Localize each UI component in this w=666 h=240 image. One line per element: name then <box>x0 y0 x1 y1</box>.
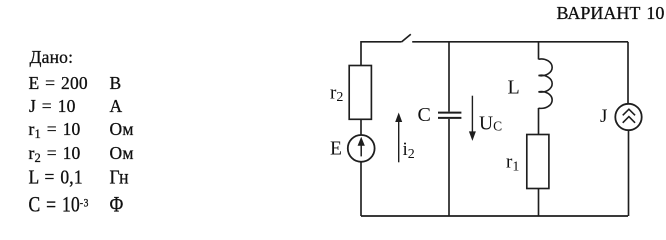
title VARIANT 10 <box>557 4 665 22</box>
bottom rail wire <box>361 215 628 217</box>
svg-text:C: C <box>418 104 431 126</box>
current source J <box>615 104 641 130</box>
arrow voltage Uc <box>470 96 475 139</box>
svg-text:r1: r1 <box>506 152 519 175</box>
svg-text:UC: UC <box>479 114 502 135</box>
arrow of source E <box>359 139 364 157</box>
wire capacitor branch top <box>448 42 450 112</box>
source E <box>348 135 375 162</box>
given-data text block <box>30 49 74 67</box>
wire top rail right of switch <box>412 41 628 43</box>
wire J to bottom rail <box>628 130 630 216</box>
svg-text:E: E <box>330 138 342 159</box>
wire capacitor branch bottom <box>448 119 450 216</box>
svg-text:r2: r2 <box>330 82 343 105</box>
chevrons of current source J <box>623 109 634 122</box>
wire L to r1 <box>538 108 540 135</box>
arrow current i2 <box>396 115 401 163</box>
resistor r2 <box>349 66 371 120</box>
resistor r1 <box>527 135 549 189</box>
svg-text:J: J <box>600 106 607 127</box>
wire r1 to bottom rail <box>538 189 540 217</box>
wire E to bottom rail <box>360 162 362 216</box>
wire inductor branch top <box>538 42 540 60</box>
wire r2 to E <box>360 119 362 135</box>
wire current source branch top <box>627 42 629 104</box>
wire top-left segment with corner <box>361 42 402 66</box>
inductor L coil <box>539 59 553 108</box>
svg-text:L: L <box>508 76 520 98</box>
svg-text:i2: i2 <box>403 139 415 162</box>
switch S <box>402 34 411 42</box>
capacitor C plates <box>438 113 461 118</box>
